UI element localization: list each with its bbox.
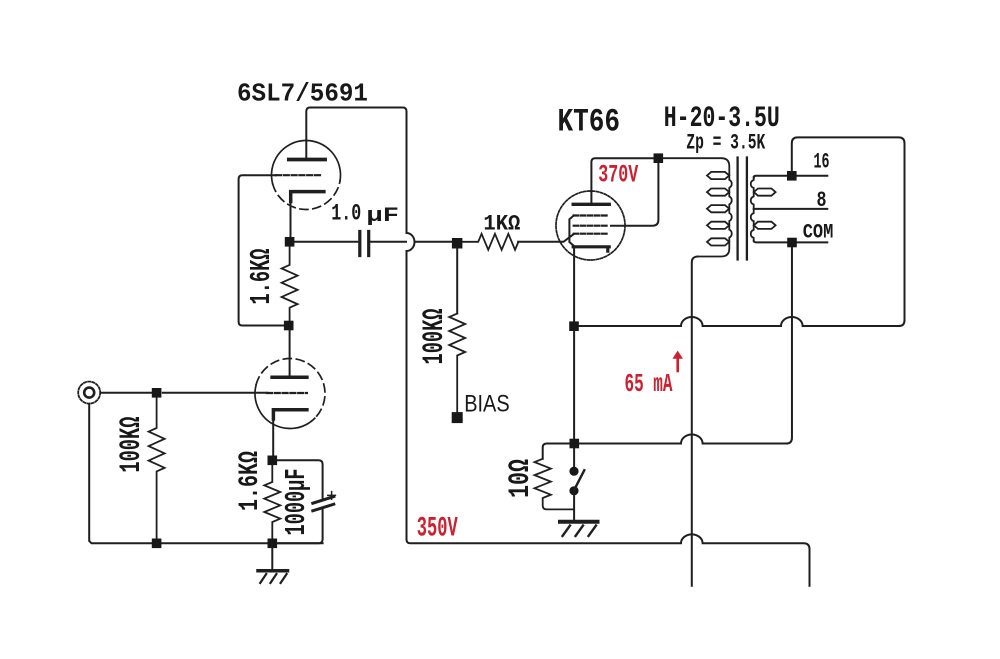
- svg-text:µF: µF: [367, 205, 400, 228]
- wire V1a plate to top-right, down past C1 (hop) to bottom bus, right to B+ drop: [306, 108, 809, 586]
- wire V2 cathode down to node K7: [573, 249, 575, 322]
- wire J1 down and ground bus to C2 corner: [89, 404, 322, 544]
- svg-text:100KΩ: 100KΩ: [115, 417, 149, 473]
- resistor R1 100KOhm: [149, 398, 165, 539]
- svg-text:1.6KΩ: 1.6KΩ: [235, 451, 266, 511]
- wire V1a cathode down to node K1: [290, 202, 292, 238]
- tube V2 grid g1 (dashed): [574, 233, 609, 235]
- tube V1a envelope dashed arc: [273, 181, 340, 210]
- input jack J1 outer: [78, 382, 100, 404]
- node K8: [570, 439, 580, 449]
- svg-text:BIAS: BIAS: [464, 391, 510, 418]
- tube V2 KT66 envelope (dashed): [556, 191, 625, 260]
- svg-text:10Ω: 10Ω: [504, 459, 538, 498]
- tube V1b envelope solid arc: [255, 384, 315, 428]
- transformer T1 primary loop 5: [707, 238, 729, 245]
- node Kin: [152, 388, 162, 398]
- svg-text:Zp = 3.5K: Zp = 3.5K: [686, 131, 766, 156]
- wire K7 down to node K8: [573, 331, 575, 439]
- wire J1 to node Kin: [100, 392, 153, 394]
- switch SW1 bottom contact: [569, 486, 578, 495]
- capacitor C2 plus mark: [328, 492, 336, 500]
- wire tap 8: [754, 208, 828, 210]
- tube V1b plate: [272, 375, 307, 379]
- svg-text:KT66: KT66: [558, 104, 621, 141]
- transformer T1 secondary loop 1: [754, 189, 776, 196]
- tube V1b envelope dashed arc: [256, 359, 325, 419]
- wire K4b to ground G1: [271, 548, 273, 569]
- ground G1 bar: [258, 569, 288, 573]
- red current arrow: [676, 357, 679, 372]
- resistor R2 1.6KOhm: [282, 247, 298, 322]
- input jack J1 inner: [84, 388, 94, 398]
- svg-text:16: 16: [814, 150, 830, 175]
- node K4a: [152, 539, 162, 549]
- wire K5 to C2 top: [277, 460, 323, 499]
- node K7: [569, 321, 579, 331]
- wire V2 plate up to node K6: [591, 158, 653, 204]
- svg-text:1.0: 1.0: [331, 200, 361, 226]
- capacitor C2 plates (electrolytic): [313, 497, 334, 511]
- tube V2 plate: [573, 203, 609, 206]
- resistor R4 1KOhm: [462, 234, 518, 250]
- tube V1b cathode: [273, 410, 307, 419]
- node K9 on tap 16: [787, 171, 797, 181]
- node K2: [452, 238, 463, 249]
- wire C1 right plate to node K2 (passes hop of vertical wire): [370, 241, 452, 243]
- node K5: [268, 456, 278, 466]
- tube V1a cathode: [291, 192, 324, 202]
- svg-text:370V: 370V: [598, 161, 638, 190]
- resistor R5 100KOhm: [449, 314, 465, 413]
- wire Kin to V1b grid: [163, 392, 267, 394]
- svg-text:6SL7/5691: 6SL7/5691: [237, 79, 368, 109]
- resistor R3 1.6KOhm: [264, 465, 280, 538]
- tube V1a plate: [289, 158, 325, 162]
- node K4b: [268, 539, 278, 549]
- wire K6 down to screen grid g2: [611, 163, 658, 226]
- wire K10 down then left to K8 (hop): [579, 247, 792, 443]
- svg-text:100KΩ: 100KΩ: [418, 309, 452, 365]
- resistor R6 10Ohm: [535, 459, 575, 510]
- wire tap 16: [754, 176, 828, 178]
- switch SW1 arm: [574, 470, 585, 490]
- wire K3 to V1b plate: [289, 330, 291, 377]
- BIAS terminal: [452, 412, 463, 423]
- capacitor C1 plates: [360, 232, 369, 256]
- capacitor C1 wire from K1: [294, 241, 358, 243]
- svg-text:350V: 350V: [417, 513, 458, 544]
- tube V2 cathode: [573, 247, 609, 251]
- ground G2 strokes: [563, 526, 597, 537]
- svg-text:65 mA: 65 mA: [625, 369, 673, 399]
- svg-text:1.6KΩ: 1.6KΩ: [245, 249, 278, 305]
- wire K8 down to switch: [573, 448, 575, 468]
- transformer T1 primary loop 3: [707, 205, 729, 212]
- ground G2 bar: [560, 520, 598, 524]
- wire V1a grid left and down to node K3: [239, 175, 285, 325]
- tube V1a grid (dashed): [276, 174, 321, 176]
- tube V2 grid g2 (dashed): [574, 225, 609, 227]
- transformer T1 secondary spine: [751, 177, 754, 241]
- node K3: [284, 321, 294, 331]
- node K6: [654, 153, 664, 163]
- node K1: [285, 237, 295, 247]
- ground G1 strokes: [260, 574, 286, 583]
- transformer T1 primary loop 2: [707, 189, 729, 196]
- svg-text:1KΩ: 1KΩ: [483, 212, 520, 237]
- transformer T1 primary loop 4: [707, 222, 729, 229]
- tube V1a envelope solid arc: [272, 140, 341, 183]
- transformer T1 core: [738, 158, 747, 260]
- wire K8 left to R6: [543, 444, 570, 459]
- wire R4 to V2 grid with bend: [518, 234, 574, 242]
- wire K2 down to R5: [456, 249, 458, 314]
- transformer T1 primary loop 1: [707, 172, 729, 179]
- svg-text:COM: COM: [803, 222, 834, 245]
- switch SW1 top contact: [569, 467, 578, 476]
- wire T1 primary bottom to B+ rail down: [692, 257, 698, 586]
- wire tap COM: [754, 241, 828, 243]
- tube V2 grid g3 (dashed): [574, 214, 609, 216]
- svg-text:1000µF: 1000µF: [280, 469, 313, 536]
- wire V1b cathode down to node K5: [272, 419, 274, 456]
- transformer T1 secondary loop 2: [754, 222, 776, 229]
- wire SW1 down to ground G2: [573, 494, 575, 522]
- node K10 on tap COM: [787, 238, 797, 248]
- svg-text:8: 8: [817, 188, 827, 213]
- wire C2 bottom to ground bus: [277, 508, 323, 544]
- tube V1b grid (dashed): [267, 392, 307, 394]
- transformer T1 primary wire and spine: [663, 158, 732, 256]
- tube V2 g3-cathode strap: [569, 216, 573, 246]
- feedback wire from K9 up over right side down to K7 (two hops): [579, 137, 905, 326]
